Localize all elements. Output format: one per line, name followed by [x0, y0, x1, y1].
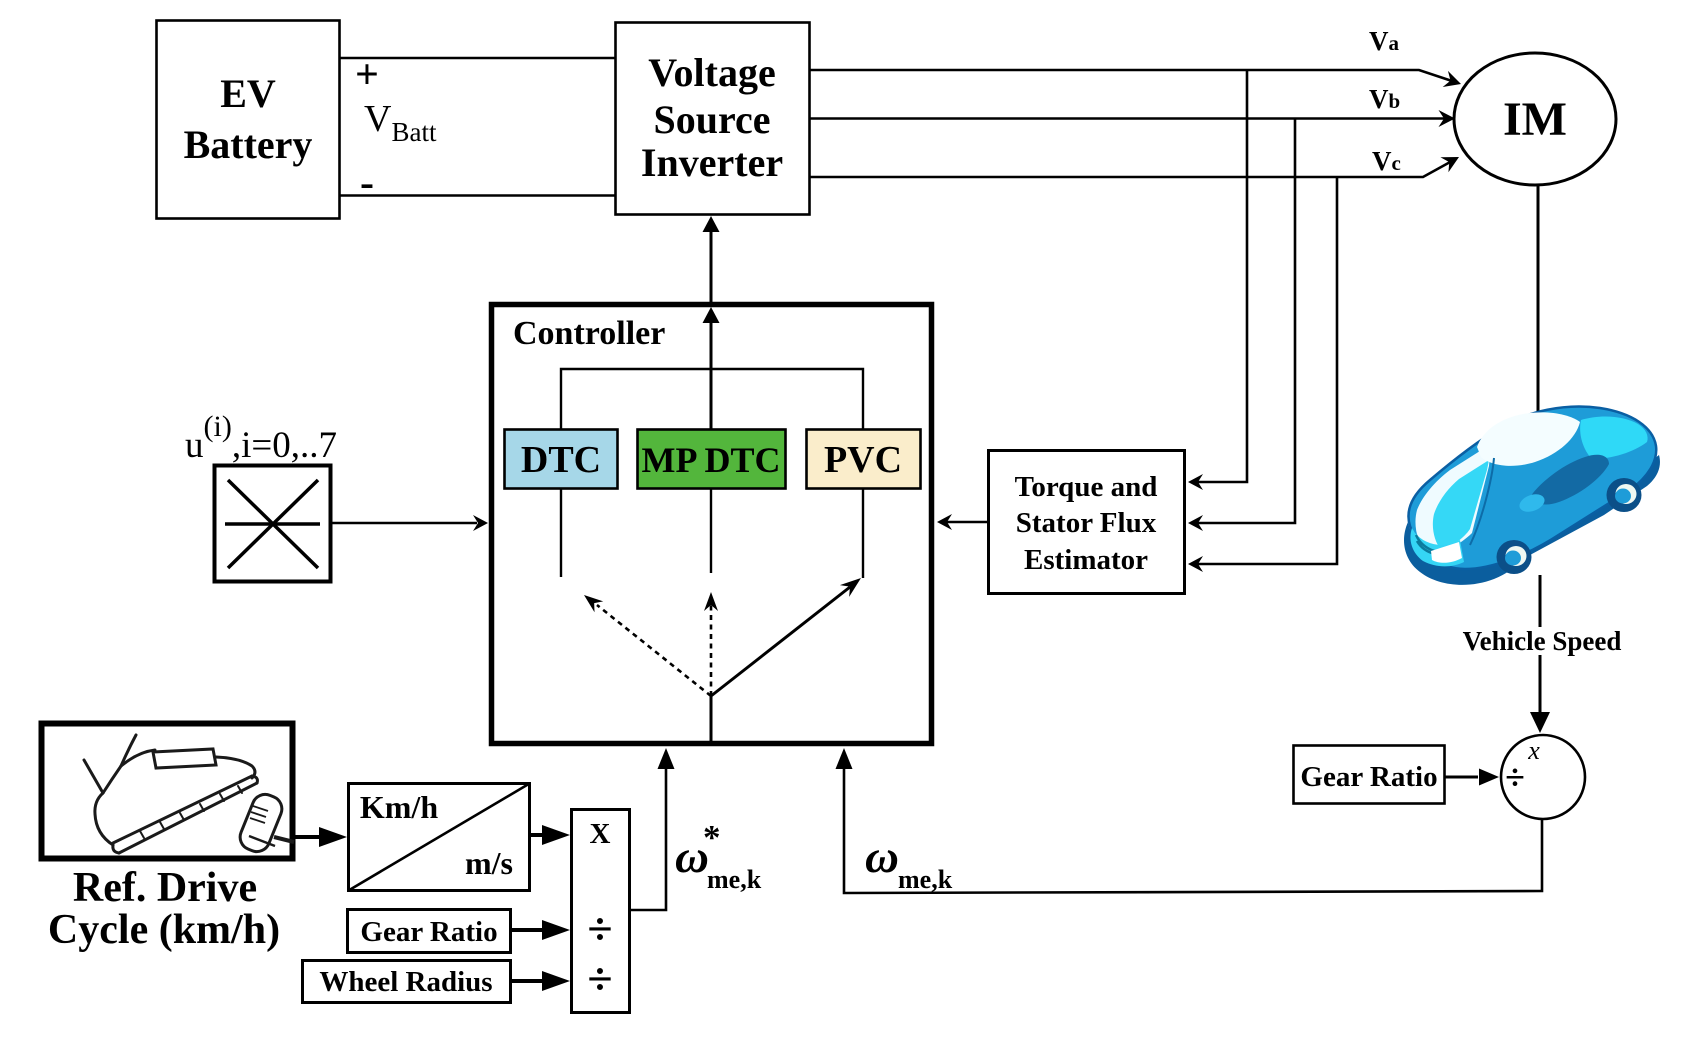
block pedal picture frame — [42, 724, 293, 859]
svg-text:MP DTC: MP DTC — [642, 440, 781, 480]
svg-text:x: x — [1527, 736, 1540, 765]
arrow converter to X — [530, 825, 570, 845]
pedal shoe drawing — [84, 735, 257, 853]
block kmh to ms converter — [349, 784, 530, 891]
svg-text:Wheel Radius: Wheel Radius — [319, 966, 492, 998]
block MP DTC — [638, 430, 786, 489]
wire Vb tap down to estimator — [1188, 119, 1295, 532]
wire motor down to car — [1537, 185, 1540, 425]
car clipart — [1404, 407, 1660, 585]
svg-text:Source: Source — [653, 97, 770, 142]
svg-text:Estimator: Estimator — [1024, 544, 1148, 576]
svg-text:-: - — [360, 160, 374, 206]
svg-text:DTC: DTC — [521, 439, 601, 481]
block Voltage Source Inverter — [616, 23, 810, 215]
svg-text:Vb: Vb — [1369, 84, 1400, 114]
wire estimator to controller — [937, 514, 988, 530]
arrow selector to controller — [331, 515, 488, 531]
svg-text:Voltage: Voltage — [648, 50, 775, 95]
svg-text:+: + — [355, 52, 379, 98]
motor IM — [1454, 53, 1616, 185]
svg-text:Gear Ratio: Gear Ratio — [1300, 761, 1437, 793]
block EV Battery — [157, 21, 340, 219]
wire car to vehicle speed label — [1539, 575, 1542, 627]
svg-text:Inverter: Inverter — [641, 140, 783, 185]
switch dashed arm to MP DTC — [704, 592, 718, 696]
svg-text:Vc: Vc — [1372, 146, 1401, 176]
switch dashed arm to DTC — [580, 590, 711, 696]
svg-text:IM: IM — [1503, 93, 1567, 146]
wire Va tap down to estimator — [1188, 70, 1247, 490]
pedal lever drawing — [236, 790, 294, 855]
car headlight — [1431, 542, 1462, 563]
block PVC — [807, 430, 921, 489]
arrow gear ratio to divide — [511, 920, 570, 940]
block X divide divide — [572, 810, 630, 1013]
svg-text:*: * — [703, 818, 721, 857]
car windshield — [1415, 444, 1491, 554]
divider circle — [1501, 735, 1585, 819]
svg-text:m/s: m/s — [465, 845, 513, 881]
svg-text:me,k: me,k — [898, 865, 953, 894]
car under shadow — [1404, 455, 1660, 585]
arrow gear ratio to divider — [1445, 769, 1499, 786]
svg-text:Gear Ratio: Gear Ratio — [360, 916, 497, 948]
wire below PVC — [862, 489, 864, 578]
car mirror — [1517, 491, 1547, 515]
arrow wheel radius to divide — [511, 971, 570, 991]
wire Vb inverter to motor — [810, 110, 1455, 127]
wire below DTC — [560, 489, 562, 577]
block Wheel Radius — [303, 961, 511, 1003]
svg-text:Controller: Controller — [513, 315, 665, 352]
switch solid arm to PVC — [711, 572, 866, 696]
svg-text:PVC: PVC — [824, 439, 902, 481]
svg-text:me,k: me,k — [707, 865, 762, 894]
svg-text:Va: Va — [1369, 26, 1400, 56]
svg-text:÷: ÷ — [587, 953, 612, 1004]
car front wheel — [1497, 540, 1532, 574]
switch common wire — [710, 696, 713, 744]
car body — [1408, 407, 1656, 569]
svg-text:Battery: Battery — [184, 122, 313, 167]
wire battery plus to inverter — [339, 57, 616, 60]
wire MP DTC up arrow inside controller — [703, 307, 720, 429]
wire controller inner rail — [561, 369, 863, 429]
block Gear Ratio right — [1294, 746, 1445, 804]
arrow pedal to converter — [294, 827, 347, 847]
car side window — [1530, 455, 1609, 505]
block Torque and Stator Flux Estimator — [989, 451, 1185, 594]
car rear wheel — [1607, 478, 1642, 512]
svg-text:÷: ÷ — [587, 903, 612, 954]
wire speed ref into controller — [630, 748, 675, 910]
svg-text:Cycle (km/h): Cycle (km/h) — [48, 907, 280, 953]
svg-text:Stator Flux: Stator Flux — [1016, 507, 1157, 539]
wire below MP DTC — [710, 489, 712, 573]
wire Va inverter to motor — [810, 70, 1464, 92]
car roof — [1477, 412, 1580, 465]
svg-text:Torque and: Torque and — [1015, 471, 1158, 503]
svg-text:÷: ÷ — [1505, 757, 1525, 797]
svg-text:Vehicle Speed: Vehicle Speed — [1463, 626, 1622, 656]
car front bumper — [1410, 528, 1464, 566]
svg-text:X: X — [590, 818, 611, 850]
block Gear Ratio left — [348, 910, 511, 953]
car door seam — [1470, 458, 1494, 545]
wire Vc inverter to motor — [810, 149, 1463, 177]
block voltage vector selector — [215, 466, 331, 582]
car grille — [1416, 535, 1438, 554]
arrow vehicle speed into divider — [1530, 655, 1550, 733]
wire battery minus to inverter — [339, 194, 616, 197]
block DTC — [505, 430, 618, 489]
wire Vc tap down to estimator — [1188, 177, 1337, 572]
svg-text:EV: EV — [220, 71, 276, 116]
wire speed feedback into controller — [836, 748, 1543, 893]
wire controller to inverter — [703, 216, 720, 302]
block Controller — [492, 305, 932, 744]
svg-text:Ref. Drive: Ref. Drive — [73, 865, 257, 911]
svg-text:ω: ω — [865, 831, 899, 883]
svg-text:Km/h: Km/h — [360, 789, 438, 825]
car rear window — [1580, 417, 1647, 459]
